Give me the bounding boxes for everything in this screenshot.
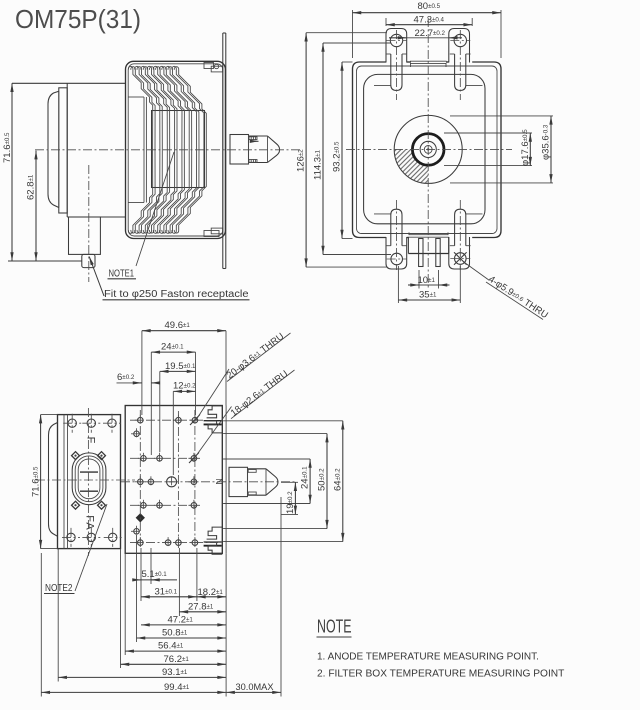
svg-text:1. ANODE TEMPERATURE MEASURING: 1. ANODE TEMPERATURE MEASURING POINT. [317, 652, 539, 663]
svg-text:FA: FA [84, 515, 96, 530]
svg-text:2. FILTER BOX TEMPERATURE MEAS: 2. FILTER BOX TEMPERATURE MEASURING POIN… [317, 669, 564, 680]
svg-text:OM75P(31): OM75P(31) [15, 4, 141, 34]
svg-text:NOTE: NOTE [317, 617, 352, 637]
svg-text:NOTE1: NOTE1 [109, 269, 135, 280]
svg-text:Fit to φ250 Faston receptacle: Fit to φ250 Faston receptacle [104, 289, 249, 300]
svg-text:30.0MAX: 30.0MAX [236, 682, 275, 693]
svg-text:F: F [85, 437, 97, 444]
svg-text:N: N [214, 478, 224, 484]
svg-text:NOTE2: NOTE2 [45, 583, 73, 594]
